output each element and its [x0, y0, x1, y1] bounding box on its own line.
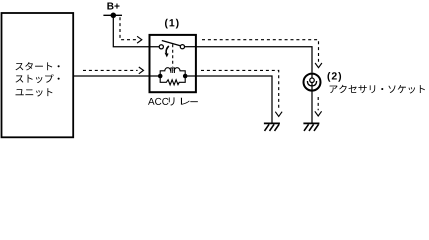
- relay switch left contact: [159, 45, 163, 49]
- relay switch right contact: [180, 45, 184, 49]
- relay coil: [160, 68, 171, 76]
- wire switch to box right edge: [185, 46, 196, 48]
- ground (socket): [303, 123, 319, 130]
- B+ junction dot: [111, 13, 117, 19]
- label (2): [327, 72, 341, 82]
- coil junction dot left: [158, 74, 163, 79]
- switch closing arrow: [166, 46, 169, 53]
- relay coil parallel resistor: [160, 76, 185, 85]
- accessory socket (2): [304, 74, 321, 91]
- flow arrow relay to socket: [202, 40, 322, 68]
- relay box U1 ACC relay: [150, 35, 196, 92]
- wire through socket: [311, 73, 313, 92]
- label start-stop unit: [16, 62, 60, 97]
- flow arrow socket to ground: [315, 97, 322, 116]
- flow arrow coil to ground: [201, 70, 282, 116]
- start-stop unit box: [2, 13, 74, 137]
- ground (coil return): [264, 123, 280, 130]
- wire B+ to relay switch contact: [113, 15, 159, 47]
- relay switch blade: [162, 41, 181, 46]
- label accessory socket: [330, 85, 425, 94]
- label (1): [165, 19, 179, 29]
- flow arrow B+ into relay: [120, 17, 142, 43]
- wire unit to relay coil: [73, 75, 158, 77]
- flow arrow unit into relay: [83, 67, 144, 74]
- label ACC relay: [148, 97, 198, 105]
- wire socket to ground: [311, 92, 313, 123]
- wire relay switch to accessory socket: [196, 47, 312, 73]
- wire relay coil to ground: [187, 76, 272, 123]
- label B+: [107, 3, 119, 10]
- coil junction dot right: [183, 74, 188, 79]
- B+ terminal bar: [103, 14, 122, 16]
- relay actuator dashed link: [172, 44, 174, 66]
